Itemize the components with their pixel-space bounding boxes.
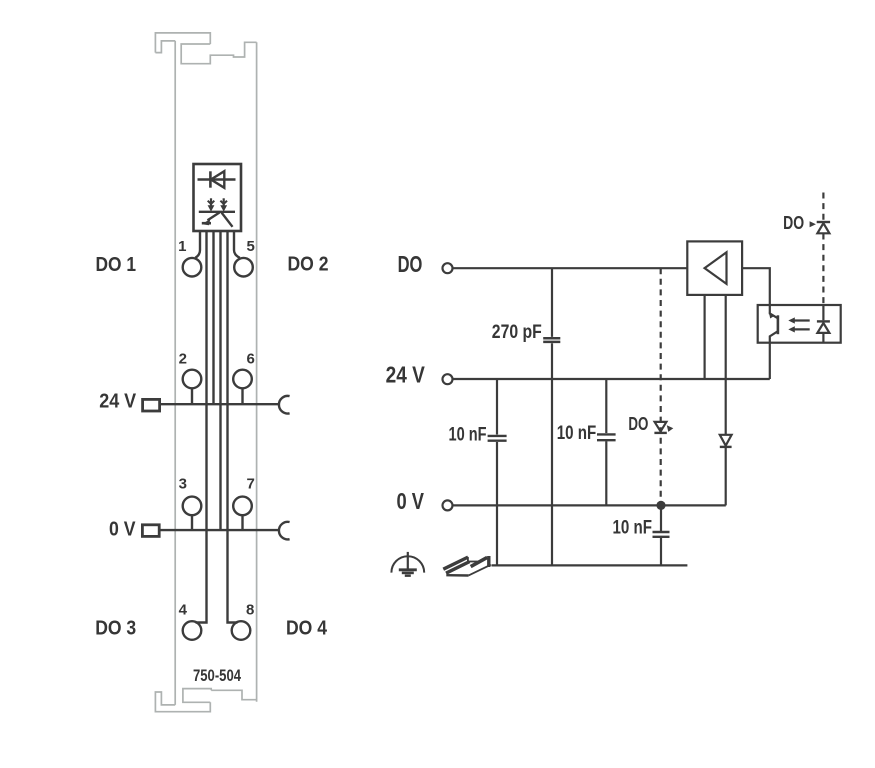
svg-text:24 V: 24 V [386, 361, 425, 387]
svg-text:DO: DO [398, 251, 423, 277]
svg-text:DO 3: DO 3 [95, 617, 136, 639]
svg-text:7: 7 [247, 475, 255, 492]
svg-text:DO: DO [628, 413, 648, 434]
svg-text:3: 3 [179, 475, 187, 492]
svg-text:10 nF: 10 nF [557, 422, 597, 444]
svg-text:4: 4 [179, 602, 188, 619]
svg-text:10 nF: 10 nF [449, 424, 487, 446]
svg-text:DO 4: DO 4 [286, 617, 328, 639]
svg-text:10 nF: 10 nF [613, 517, 653, 539]
svg-text:270 pF: 270 pF [492, 321, 542, 343]
svg-text:DO 1: DO 1 [96, 254, 137, 276]
svg-text:750-504: 750-504 [193, 667, 242, 685]
svg-text:DO: DO [783, 212, 804, 233]
svg-text:8: 8 [246, 602, 254, 619]
svg-text:5: 5 [247, 238, 255, 255]
svg-text:2: 2 [179, 351, 187, 368]
svg-text:6: 6 [247, 351, 255, 368]
svg-text:DO 2: DO 2 [288, 254, 329, 276]
svg-text:0 V: 0 V [109, 518, 136, 540]
svg-text:1: 1 [178, 238, 186, 255]
svg-text:24 V: 24 V [99, 390, 137, 412]
svg-text:0 V: 0 V [397, 488, 425, 514]
